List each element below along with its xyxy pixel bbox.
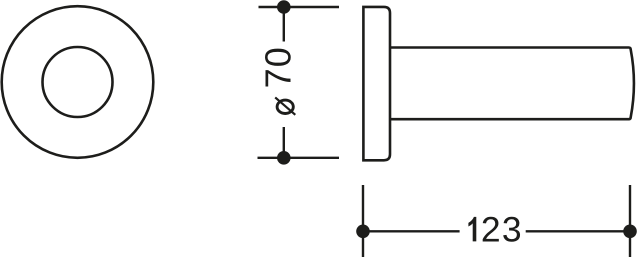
dimension text 123: digit 1 drawn (no foot serif) [468,217,476,242]
dimension dot top [277,0,291,14]
dimension dot right [623,225,637,239]
svg-text:23: 23 [481,209,523,249]
outer circle (front view, plate ø70) [2,6,154,158]
dimension dot bottom [277,151,291,165]
extension line right (123) [629,185,631,257]
inner circle (front view, hub) [43,47,113,117]
extension line bottom (ø70) [258,157,340,159]
extension line top (ø70) [259,6,340,8]
flange (side view wall plate) [363,7,390,160]
diameter symbol ø (rotated): bowl [277,100,293,113]
extension line left (123) [362,185,364,257]
dimension line right segment (123) [526,230,630,232]
diameter symbol ø: slash [275,97,295,114]
svg-text:70: 70 [258,46,299,88]
dimension line left segment (123) [363,230,460,232]
dimension line vertical bottom segment [283,127,285,158]
dimension line vertical top segment [283,7,285,42]
dimension dot left [356,225,370,239]
cylinder (side view, projection 123) [390,48,634,120]
